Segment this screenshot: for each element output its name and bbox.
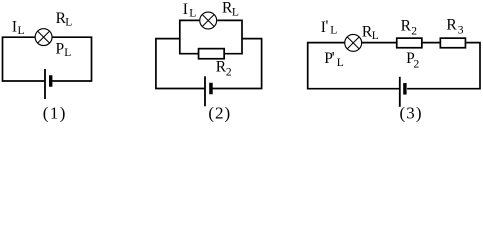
svg-text:2: 2 [411,25,417,37]
lamp EL2 (circle with X) [200,12,217,29]
svg-text:(1): (1) [43,104,67,123]
circuit 2 left tap wire to outer loop [156,39,205,89]
circuit 3 loop: left part [308,43,400,89]
svg-text:L: L [64,47,71,59]
resistor R2 box (circuit 3) [397,38,422,48]
battery B2 short thick plate [209,83,213,95]
svg-text:3: 3 [458,25,464,37]
svg-text:I: I [183,1,188,18]
svg-text:2: 2 [414,58,420,70]
circuit 2 parallel box: top branch with lamp gap [180,20,200,29]
circuit 1 loop: top wire left segment [3,37,45,81]
circuit 2 right tap wire to outer loop [213,39,262,89]
resistor R2 box (circuit 2) [199,49,225,59]
svg-text:L: L [232,7,239,19]
svg-text:2: 2 [226,66,232,78]
svg-text:L: L [337,57,344,69]
circuit 3 loop: right part [407,43,480,89]
svg-text:L: L [18,25,25,37]
svg-text:': ' [326,18,329,35]
svg-text:L: L [330,25,337,37]
lamp EL3 (circle with X) [345,34,362,51]
resistor R3 box (circuit 3) [440,38,465,48]
svg-text:(2): (2) [208,104,231,123]
circuit 3 top wire R2 to R3 [422,42,440,44]
circuit 3 top wire lamp to R2 [362,42,397,44]
svg-text:I: I [12,19,17,36]
battery B3 long plate [399,77,401,107]
svg-text:R: R [446,17,457,34]
battery B3 short thick plate [403,83,406,95]
svg-text:L: L [189,7,196,19]
svg-text:R: R [401,18,412,35]
battery B2 long plate [204,76,206,106]
circuit 2 parallel box: left side lower [180,29,198,54]
circuit 2 parallel box: right side lower [225,29,242,54]
svg-text:(3): (3) [400,104,423,123]
svg-text:': ' [332,50,335,67]
svg-text:P: P [56,41,65,58]
svg-text:L: L [65,16,72,28]
battery B1 short thick plate [49,75,52,87]
svg-text:L: L [372,30,379,42]
circuit 1 loop: top wire right segment [52,37,91,81]
lamp EL1 (circle with X) [35,29,52,46]
battery B1 long plate [44,69,46,99]
